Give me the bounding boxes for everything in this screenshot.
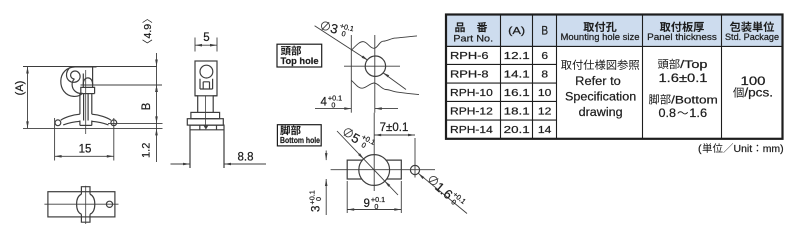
svg-text:9: 9 [364,198,370,210]
svg-text:0: 0 [314,197,323,201]
svg-text:0: 0 [331,101,335,110]
svg-text:16.1: 16.1 [504,88,531,99]
svg-text:Std. Package: Std. Package [725,32,779,42]
side view: flange 1 [191,112,220,118]
plan view: center boss [77,194,82,214]
plan view: vertical centerline [85,186,87,224]
svg-text:Unit: Unit [734,143,753,155]
dia 3 leader [315,26,368,60]
svg-text:(A): (A) [508,25,525,37]
svg-text:mm): mm) [763,143,784,155]
svg-text:5: 5 [203,32,209,44]
svg-text:4: 4 [321,96,328,108]
svg-text:Panel thickness: Panel thickness [647,32,717,42]
dimension 3 label [308,190,324,212]
svg-text:Refer to: Refer to [575,76,621,88]
top hole: panel left edge [350,35,352,113]
svg-text:12.1: 12.1 [504,51,531,62]
dia 1.6 leader [418,173,467,213]
table header text [455,22,464,32]
plan view: horizontal centerline [44,203,118,205]
mounting hole cell text [561,60,572,70]
pilot hole circle [410,165,419,174]
plan view: top tab [81,187,90,195]
svg-text:14: 14 [538,125,552,136]
dia 5 label [341,124,377,154]
front view: post [79,94,81,115]
svg-text:RPH-6: RPH-6 [450,51,489,62]
top hole: top break line [351,36,417,50]
bottom hole: horizontal centerline [331,169,435,171]
bottom hole: hole circle [359,155,390,186]
svg-text:/pcs.: /pcs. [744,88,773,100]
svg-text:Bottom hole: Bottom hole [280,135,320,145]
dim 3 line [325,151,327,161]
side view: flange 2 [187,119,223,125]
svg-text:18.1: 18.1 [504,106,531,117]
svg-text:Top hole: Top hole [281,56,319,66]
svg-text:RPH-12: RPH-12 [450,106,493,117]
svg-text:3: 3 [310,206,322,212]
side view: latch marker [203,125,208,129]
svg-text:1.6: 1.6 [689,108,707,120]
table grid [446,45,557,47]
svg-text:0: 0 [374,202,378,211]
dim 5 line [195,44,217,46]
side view: top rect [195,61,217,96]
side view: panel line in block [190,129,224,131]
top hole: horizontal centerline [344,65,400,67]
svg-text:RPH-8: RPH-8 [450,69,489,80]
svg-text:(: ( [698,143,702,155]
top hole: hole circle [365,56,385,76]
dim B arrows [155,85,158,92]
svg-text:100: 100 [741,74,766,88]
front view right dimension line [156,53,158,162]
front view: hook mouth extension line [81,84,163,86]
dia 3 label [320,17,355,41]
svg-text:10: 10 [538,88,552,99]
bottom hole label box [277,125,321,146]
svg-text:12: 12 [538,106,552,117]
dim 7 right extension [414,138,416,178]
dimension (A) line [27,67,29,129]
dim 8.8 line [171,163,191,165]
dim 7 line [374,134,415,136]
top hole label box [277,44,322,67]
svg-text:4.9: 4.9 [142,24,154,39]
top hole: vertical centerline [374,35,376,113]
plan view: pilot hole [106,201,112,207]
svg-text:6: 6 [541,51,548,62]
svg-text:/Bottom: /Bottom [671,95,718,107]
dim 9 extension lines [346,181,348,213]
bottom hole: slot outline [347,160,401,179]
side view: hook circle [200,65,213,78]
svg-text:8.8: 8.8 [238,152,254,164]
front view: left wing [61,114,80,120]
plan view: outline [48,192,115,217]
front view: post cap [92,67,94,88]
front view: center axis [85,70,87,134]
svg-text:drawing: drawing [579,107,623,119]
dim 1.2 arrows [155,128,158,135]
side view: base block [190,125,224,168]
dimension 4.9 label [142,19,154,43]
table header background [446,15,783,47]
dim 15 extension lines [54,118,56,161]
dim 15 line [55,155,114,157]
dim 5 extension lines [194,38,196,52]
plan view: bottom tab [81,214,90,222]
svg-text:1.2: 1.2 [141,143,153,158]
front view: top extension line [23,66,157,68]
bottom hole: vertical centerline [373,113,375,191]
svg-text:RPH-10: RPH-10 [450,88,493,99]
dimension 1.2 label [141,143,153,158]
svg-text:(A): (A) [14,81,26,96]
svg-text:8: 8 [541,69,548,80]
svg-text:1.6±0.1: 1.6±0.1 [659,73,708,85]
svg-text:/Top: /Top [680,59,707,71]
dim 9 line [347,209,401,211]
front view: right wing [92,114,111,120]
svg-text:RPH-14: RPH-14 [450,125,493,136]
svg-text:Part No.: Part No. [453,34,493,45]
svg-text:0.8: 0.8 [659,108,677,120]
svg-text:Specification: Specification [565,91,636,103]
svg-text:7±0.1: 7±0.1 [380,122,409,134]
front view: base underside [80,124,92,126]
dim 4 line [315,108,351,110]
dim 4.9 arrows [155,60,158,67]
dimension (A) label [14,81,26,96]
top hole: bottom break line [351,80,419,94]
side view: pedestal [200,79,213,89]
front view: hook [61,67,97,97]
svg-text:B: B [141,102,153,110]
svg-text:Mounting hole size: Mounting hole size [561,32,640,42]
svg-text:15: 15 [79,144,92,156]
svg-text:B: B [541,23,548,37]
panel thickness cell text [658,59,669,69]
front view: panel baseline [23,127,163,129]
svg-text:14.1: 14.1 [504,69,531,80]
front view: clamp wing-top extension line [108,122,163,124]
svg-text:20.1: 20.1 [504,125,531,136]
side view: middle post [195,96,217,113]
side view: post center line [205,96,207,125]
dia 1.6 label [425,172,468,212]
dia 5 leader [337,131,398,195]
dimension B label [141,102,153,110]
